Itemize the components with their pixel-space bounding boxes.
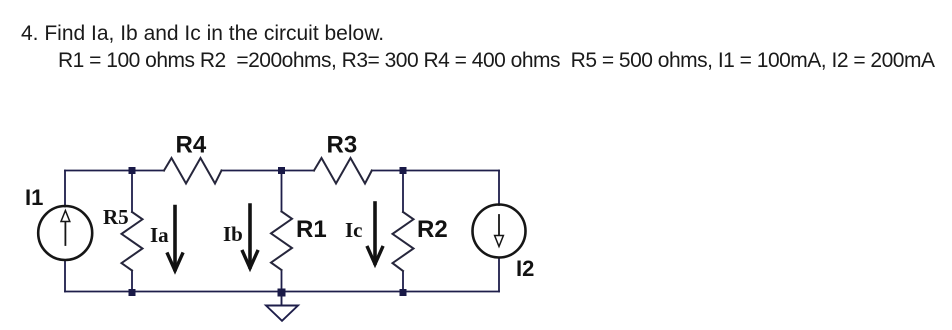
resistor R3 xyxy=(314,158,372,184)
current arrow Ia xyxy=(168,207,183,271)
junction dot bottom R2 xyxy=(400,289,407,296)
svg-text:R2: R2 xyxy=(417,216,448,243)
title line 2 xyxy=(58,49,934,73)
svg-text:I2: I2 xyxy=(516,256,534,281)
wire R1 leads xyxy=(281,171,283,292)
junction dot top R1 xyxy=(278,167,285,174)
svg-text:R4: R4 xyxy=(176,132,207,159)
svg-text:I1: I1 xyxy=(25,185,43,210)
junction dot bottom R5 xyxy=(129,289,136,296)
resistor R2 xyxy=(393,212,414,271)
wire left rail xyxy=(64,171,66,292)
current source I1 xyxy=(38,206,92,260)
wire bottom rail xyxy=(65,291,499,293)
resistor R4 xyxy=(164,158,222,184)
wire R2 leads xyxy=(402,171,404,292)
svg-text:Ia: Ia xyxy=(150,223,169,247)
svg-text:Ib: Ib xyxy=(223,222,243,246)
wire top rail xyxy=(65,170,499,172)
resistor R1 xyxy=(271,212,292,271)
svg-text:R1: R1 xyxy=(296,216,327,243)
current arrow Ib xyxy=(243,205,258,268)
ground xyxy=(266,296,298,321)
resistor R5 xyxy=(122,212,143,271)
junction dot top R2 xyxy=(400,167,407,174)
junction dot top R5 xyxy=(129,167,136,174)
junction dot bottom R1/ground xyxy=(278,289,286,297)
svg-text:R3: R3 xyxy=(327,132,358,159)
title line 1 xyxy=(21,22,384,46)
wire R5 leads xyxy=(131,171,133,292)
current source I2 xyxy=(473,205,526,258)
svg-text:R5: R5 xyxy=(103,205,129,229)
svg-text:Ic: Ic xyxy=(345,218,363,242)
wire right rail xyxy=(498,171,500,292)
current arrow Ic xyxy=(368,203,383,264)
